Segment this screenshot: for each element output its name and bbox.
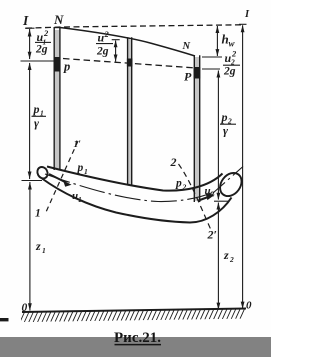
svg-text:2: 2 — [104, 29, 110, 39]
label h_w — [222, 32, 236, 49]
segment z1 — [29, 182, 31, 311]
svg-text:Рис.21.: Рис.21. — [114, 330, 161, 346]
label u1 (in pipe) — [72, 190, 82, 204]
svg-text:p: p — [63, 60, 70, 74]
svg-text:1′: 1′ — [74, 140, 82, 150]
svg-text:2: 2 — [229, 255, 234, 264]
label P1 (pressure at section 1) — [77, 162, 88, 176]
p2/gamma segment arrows — [217, 70, 221, 77]
middle measurement arrow x=115.5 (u^2/2g) — [112, 40, 120, 62]
label P2 (pressure at section 2) — [175, 178, 187, 192]
label z2 — [223, 248, 234, 264]
fraction u2^2/2g (right) — [223, 49, 240, 78]
tube T2 fluid level blob — [127, 59, 133, 67]
svg-text:z: z — [223, 248, 229, 262]
fraction p2/gamma — [220, 110, 236, 138]
pipe inlet opening ellipse — [35, 165, 49, 180]
segment p1/gamma — [29, 63, 31, 179]
z2 segment arrows — [217, 202, 221, 209]
arrowheads — [28, 25, 245, 311]
svg-text:2g: 2g — [96, 46, 109, 58]
svg-text:1: 1 — [84, 167, 88, 176]
svg-text:2: 2 — [231, 49, 237, 59]
pipe axis at outlet — [213, 167, 243, 194]
section line 2-2' (dashed) — [179, 164, 212, 230]
svg-text:1: 1 — [42, 246, 46, 255]
tube T3 fluid level blob — [194, 67, 201, 79]
svg-text:w: w — [229, 39, 236, 49]
tube interiors speckle fill — [55, 30, 199, 201]
svg-text:u: u — [98, 31, 105, 45]
segment u1^2/2g — [29, 29, 31, 59]
svg-text:2g: 2g — [35, 44, 48, 56]
left line arrows — [28, 29, 32, 37]
svg-text:N: N — [182, 41, 191, 52]
pipe centerline (dash-dot axis) — [45, 174, 215, 202]
right measurement: h_w arrow x=217.5 — [216, 26, 218, 56]
svg-text:P: P — [184, 70, 192, 84]
top dashed initial energy level line I-I — [26, 25, 243, 28]
svg-text:2′: 2′ — [207, 228, 217, 242]
svg-text:2: 2 — [210, 190, 215, 199]
energy line N-N — [60, 28, 195, 57]
svg-text:p: p — [221, 110, 228, 124]
fraction u1^2/2g — [35, 28, 51, 56]
fraction u^2/2g (middle) — [96, 29, 113, 58]
tick at piezometric level right — [202, 68, 220, 70]
velocity arrow u2 — [199, 197, 210, 201]
svg-text:0: 0 — [22, 302, 28, 314]
svg-text:I: I — [22, 13, 29, 28]
section line 1-1' (dashed) — [46, 141, 78, 212]
svg-text:2: 2 — [170, 155, 177, 169]
piezometer tube T3 (right) — [194, 55, 199, 202]
svg-text:p: p — [77, 162, 84, 174]
tube T1 fluid level blob — [54, 57, 61, 72]
svg-text:2g: 2g — [223, 66, 236, 78]
svg-text:1: 1 — [35, 208, 41, 220]
fraction p1/gamma — [32, 102, 47, 130]
svg-text:1: 1 — [78, 195, 82, 204]
svg-text:z: z — [35, 239, 41, 253]
right line x=218.5 : p2/gamma + z2 — [214, 71, 229, 310]
tick at y61 — [21, 60, 54, 62]
u2 arrowhead — [206, 193, 215, 200]
svg-text:N: N — [53, 12, 64, 27]
svg-text:γ: γ — [34, 116, 39, 130]
piezometric dashed line P-P — [63, 59, 196, 69]
svg-text:p: p — [175, 178, 182, 190]
h_w arrows — [216, 26, 220, 33]
svg-text:0: 0 — [246, 300, 252, 312]
svg-text:γ: γ — [223, 124, 228, 138]
tick at energy level right — [202, 56, 222, 58]
svg-text:2: 2 — [182, 183, 187, 192]
ink blob bottom-left edge — [0, 318, 9, 321]
tick at pipe axis level — [22, 180, 43, 182]
pipe bottom wall — [42, 179, 232, 223]
left measurement line x=29.5 — [21, 28, 54, 310]
label u2 (in pipe) — [205, 185, 215, 199]
piezometer tube T2 (middle) — [128, 37, 132, 184]
piezometer tube T1 (left, Pitot) — [54, 28, 62, 170]
velocity arrow u1 — [49, 174, 66, 183]
hatching below datum — [22, 309, 246, 313]
gray caption bar — [0, 337, 271, 357]
label z1 — [35, 239, 46, 255]
far right line arrows — [241, 25, 245, 32]
far right line x=242.5 (total head) — [239, 24, 247, 308]
middle arrow (u^2/2g) — [114, 40, 118, 47]
svg-text:p: p — [33, 102, 40, 116]
pipe top wall — [47, 167, 223, 191]
datum line 0-0 — [22, 309, 246, 313]
svg-text:2: 2 — [43, 28, 49, 38]
pipe outlet opening ellipse — [216, 169, 246, 201]
u1 arrowhead — [63, 180, 72, 187]
tick at top — [25, 27, 35, 29]
